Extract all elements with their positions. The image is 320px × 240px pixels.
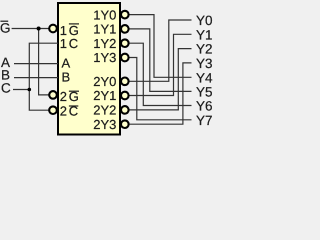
inversion bubble pin 1Y3 [121,54,129,62]
inversion bubble pin 2C [49,106,57,114]
IC body U1 (74155 dual 2-to-4 decoder as 3-to-8) [58,3,120,135]
svg-text:B: B [62,70,71,85]
svg-text:Y6: Y6 [196,99,213,114]
svg-text:Y2: Y2 [196,42,213,57]
svg-text:Y1: Y1 [196,27,213,42]
inversion bubble pin 2Y0 [121,78,129,86]
svg-text:Y4: Y4 [196,70,213,85]
wire C branch down to 2C pin [29,90,49,111]
inversion bubble pin 2Y2 [121,106,129,114]
svg-text:1Y1: 1Y1 [93,22,116,37]
svg-text:2Y2: 2Y2 [93,103,116,118]
wire C input [13,89,29,91]
wire 1Y1 to Y5 [129,29,191,92]
svg-text:Y5: Y5 [196,84,213,99]
inversion bubble pin 1Y0 [121,11,129,19]
wire A input [14,63,58,65]
wire 1Y0 to Y4 [129,15,191,78]
wire 2Y3 to Y3 [129,63,191,124]
svg-text:Y3: Y3 [196,56,213,71]
junction dot on C net [28,88,32,92]
pin label 2G [60,89,81,104]
wire B input [14,77,58,79]
svg-text:2Y0: 2Y0 [93,74,116,89]
svg-text:2Y3: 2Y3 [93,117,116,132]
inversion bubble pin 1G [49,25,57,33]
wire G input to 1G pin [12,28,49,30]
inversion bubble pin 2Y1 [121,92,129,100]
wire 2Y0 to Y0 [129,20,191,81]
svg-text:Y7: Y7 [196,113,213,128]
wire G branch down to 2G [39,29,49,95]
inversion bubble pin 2Y3 [121,120,129,128]
inversion bubble pin 2G [49,91,57,99]
pin label 1G [60,23,81,38]
wire 1Y2 to Y6 [129,43,191,105]
inversion bubble pin 1Y1 [121,25,129,33]
node G input label [0,20,11,35]
svg-text:1Y2: 1Y2 [93,36,116,51]
svg-text:Y0: Y0 [196,13,213,28]
svg-text:2Y1: 2Y1 [93,88,116,103]
svg-text:1Y0: 1Y0 [93,7,116,22]
pin label 2C [60,104,80,119]
junction dot on G net [37,27,41,31]
svg-text:G: G [0,20,11,35]
svg-text:A: A [62,56,71,71]
svg-text:C: C [1,81,11,96]
wire 2Y2 to Y2 [129,49,191,110]
svg-text:1Y3: 1Y3 [93,50,116,65]
inversion bubble pin 1Y2 [121,39,129,47]
wire 2Y1 to Y1 [129,34,191,95]
wire 1Y3 to Y7 [129,58,191,120]
svg-text:1C: 1C [60,36,80,51]
wire C branch up to 1C pin [29,43,58,89]
